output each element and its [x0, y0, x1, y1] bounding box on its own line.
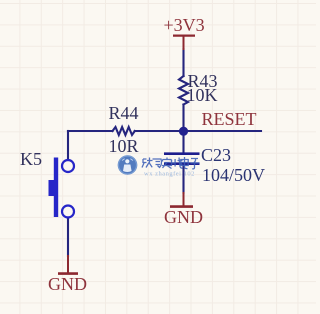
svg-text:wx zhangfei 102: wx zhangfei 102 [144, 171, 195, 178]
svg-text:10R: 10R [109, 136, 139, 156]
svg-text:R44: R44 [109, 103, 139, 123]
svg-text:RESET: RESET [202, 109, 257, 129]
svg-text:GND: GND [48, 274, 87, 294]
svg-text:C23: C23 [201, 145, 231, 165]
svg-text:+3V3: +3V3 [164, 15, 205, 35]
svg-text:GND: GND [164, 207, 203, 227]
svg-text:104/50V: 104/50V [202, 165, 265, 185]
svg-text:10K: 10K [187, 85, 218, 105]
svg-text:K5: K5 [20, 149, 42, 169]
